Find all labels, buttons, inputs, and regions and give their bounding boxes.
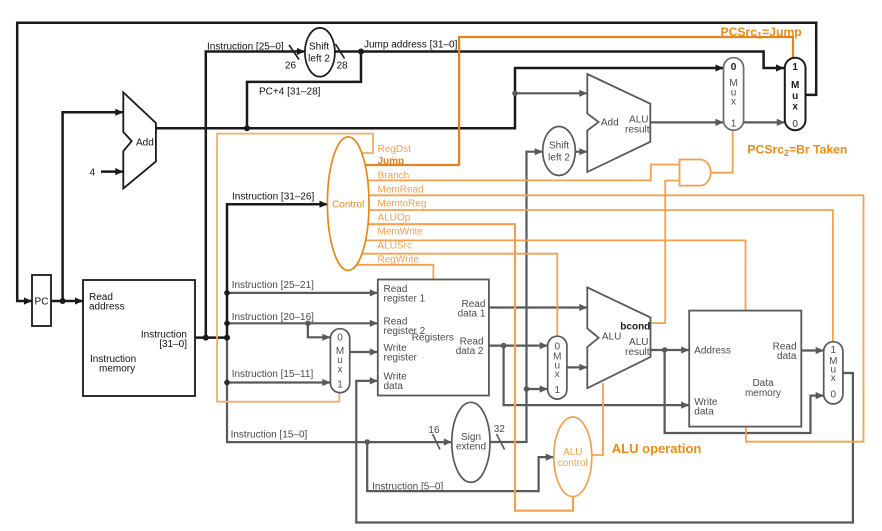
svg-text:x: x	[555, 369, 560, 380]
svg-text:0: 0	[731, 62, 737, 73]
svg-text:Jump: Jump	[378, 156, 405, 167]
svg-text:PC+4 [31–28]: PC+4 [31–28]	[259, 87, 321, 98]
svg-text:ALU operation: ALU operation	[612, 441, 702, 456]
svg-text:1: 1	[337, 380, 343, 391]
svg-text:1: 1	[555, 385, 561, 396]
svg-text:Control: Control	[332, 199, 364, 210]
svg-text:MemRead: MemRead	[378, 185, 424, 196]
svg-text:0: 0	[792, 119, 798, 130]
svg-text:MemWrite: MemWrite	[378, 227, 424, 238]
svg-text:Registers: Registers	[412, 333, 454, 344]
svg-text:Instruction [25–21]: Instruction [25–21]	[232, 280, 314, 291]
svg-text:x: x	[731, 97, 736, 108]
svg-text:[31–0]: [31–0]	[159, 339, 187, 350]
svg-text:Address: Address	[694, 346, 731, 357]
svg-text:ALUSrc: ALUSrc	[378, 241, 412, 252]
svg-text:Jump address [31–0]: Jump address [31–0]	[364, 40, 458, 51]
svg-text:32: 32	[494, 424, 506, 435]
svg-text:0: 0	[337, 333, 343, 344]
svg-text:x: x	[338, 365, 343, 376]
svg-text:left 2: left 2	[308, 54, 330, 65]
svg-text:Instruction [20–16]: Instruction [20–16]	[232, 312, 314, 323]
svg-text:bcond: bcond	[620, 321, 650, 332]
svg-text:ALU: ALU	[563, 447, 582, 458]
svg-text:Add: Add	[136, 138, 154, 149]
svg-text:M: M	[791, 80, 799, 91]
svg-text:memory: memory	[99, 364, 135, 375]
svg-text:RegWrite: RegWrite	[378, 255, 420, 266]
svg-text:0: 0	[831, 390, 837, 401]
svg-text:PCSrc2=Br Taken: PCSrc2=Br Taken	[747, 143, 847, 159]
svg-text:1: 1	[731, 119, 737, 130]
svg-text:memory: memory	[745, 388, 781, 399]
svg-text:register 1: register 1	[384, 294, 426, 305]
svg-text:Instruction [15–11]: Instruction [15–11]	[232, 369, 314, 380]
svg-text:Shift: Shift	[309, 42, 329, 53]
svg-text:1: 1	[831, 345, 837, 356]
svg-text:MemtoReg: MemtoReg	[378, 199, 427, 210]
svg-text:data 1: data 1	[458, 308, 486, 319]
svg-text:Add: Add	[601, 118, 619, 129]
svg-text:register: register	[384, 353, 418, 364]
svg-text:16: 16	[428, 425, 440, 436]
svg-text:result: result	[625, 124, 650, 135]
svg-text:Instruction [15–0]: Instruction [15–0]	[231, 429, 308, 440]
svg-text:RegDst: RegDst	[378, 144, 412, 155]
svg-text:data: data	[694, 406, 714, 417]
svg-text:ALU: ALU	[602, 331, 621, 342]
svg-text:Branch: Branch	[378, 171, 410, 182]
svg-text:1: 1	[792, 62, 798, 73]
svg-text:ALUOp: ALUOp	[378, 213, 411, 224]
svg-text:data: data	[777, 351, 797, 362]
svg-text:control: control	[558, 458, 588, 469]
svg-text:address: address	[89, 302, 125, 313]
svg-text:Instruction [5–0]: Instruction [5–0]	[372, 481, 443, 492]
svg-text:4: 4	[90, 168, 96, 179]
svg-text:u: u	[792, 91, 798, 102]
svg-text:result: result	[625, 347, 650, 358]
svg-text:data 2: data 2	[456, 346, 484, 357]
svg-text:Instruction [31–26]: Instruction [31–26]	[232, 192, 314, 203]
svg-text:x: x	[792, 102, 798, 113]
svg-text:Instruction [25–0]: Instruction [25–0]	[207, 42, 284, 53]
svg-text:Shift: Shift	[549, 141, 569, 152]
svg-text:x: x	[831, 373, 836, 384]
svg-text:26: 26	[285, 61, 297, 72]
svg-text:left 2: left 2	[548, 153, 570, 164]
svg-text:data: data	[384, 381, 404, 392]
svg-text:PC: PC	[35, 297, 49, 308]
svg-text:extend: extend	[456, 441, 486, 452]
svg-text:28: 28	[337, 61, 349, 72]
